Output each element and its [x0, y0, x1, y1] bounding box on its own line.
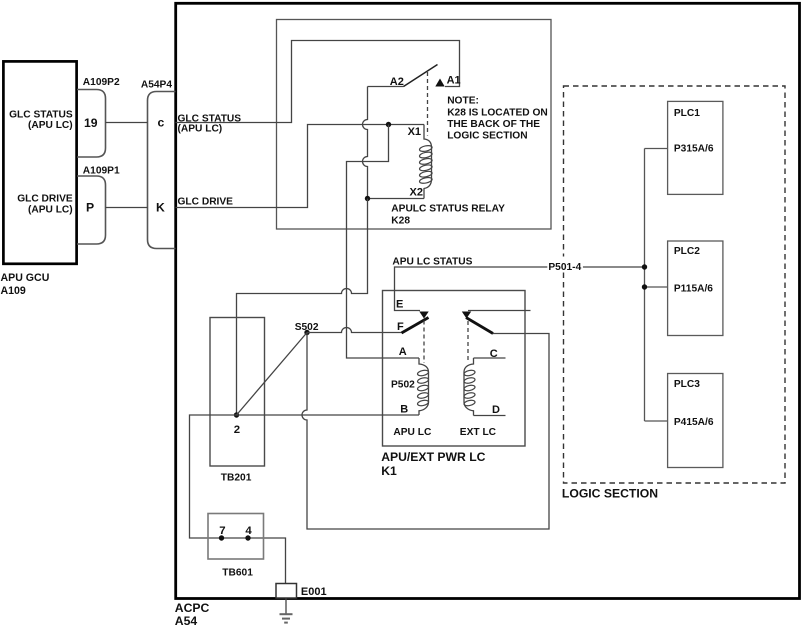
switch S502 node — [295, 322, 319, 335]
K1 APU/EXT PWR LC box — [381, 291, 525, 479]
K1 EXT stub wire — [468, 310, 531, 312]
svg-text:ACPC: ACPC — [175, 601, 210, 615]
svg-text:P415A/6: P415A/6 — [674, 417, 714, 428]
svg-text:APU LC: APU LC — [393, 427, 432, 438]
K1 EXT dashed link — [467, 321, 469, 363]
svg-text:GLC DRIVE: GLC DRIVE — [17, 194, 73, 205]
wire A2 down to X2 node (with hops) — [363, 87, 368, 199]
svg-text:LOGIC SECTION: LOGIC SECTION — [447, 131, 527, 142]
svg-text:GLC STATUS: GLC STATUS — [9, 109, 73, 120]
svg-text:2: 2 — [234, 424, 240, 436]
svg-text:APU LC STATUS: APU LC STATUS — [392, 256, 472, 267]
wire stub to PLC3 — [645, 420, 668, 422]
svg-text:X2: X2 — [410, 187, 423, 199]
relay K28 coil — [391, 125, 505, 227]
K1 EXT LC coil — [460, 348, 500, 438]
K1 EXT LC blade — [466, 318, 493, 334]
svg-text:A109P2: A109P2 — [83, 77, 120, 88]
svg-text:TB201: TB201 — [221, 472, 252, 483]
svg-text:(APU LC): (APU LC) — [178, 123, 223, 134]
svg-text:PLC2: PLC2 — [674, 246, 700, 257]
wire stub to PLC1 — [645, 148, 668, 150]
K1 APU LC dashed link — [423, 321, 425, 364]
K1 APU LC blade F — [397, 318, 429, 334]
ground stud E001 — [276, 584, 327, 599]
node X2 junction — [365, 196, 370, 201]
svg-text:PLC1: PLC1 — [674, 108, 700, 119]
svg-text:7: 7 — [219, 525, 225, 537]
TB601 box — [208, 514, 264, 579]
svg-text:19: 19 — [84, 116, 98, 130]
svg-text:A109P1: A109P1 — [83, 165, 120, 176]
svg-text:A54P4: A54P4 — [141, 80, 172, 91]
svg-text:K: K — [156, 201, 165, 215]
connector A54P4 — [141, 80, 176, 249]
ACPC A54 outer box — [175, 3, 800, 628]
wire TB201 pin2 to TB601 and E001 — [190, 415, 286, 584]
TB201 pin 2 — [234, 412, 240, 436]
node P501-4 junction — [642, 264, 647, 269]
svg-text:NOTE:: NOTE: — [447, 96, 479, 107]
svg-text:GLC DRIVE: GLC DRIVE — [178, 197, 234, 208]
node PLC2 junction — [642, 284, 647, 289]
svg-text:APULC STATUS RELAY: APULC STATUS RELAY — [391, 203, 505, 214]
TB601 pin 7 — [219, 525, 226, 541]
svg-text:B: B — [400, 404, 408, 416]
relay K28 switch blade — [404, 65, 438, 87]
relay K28 contact A1 — [435, 74, 460, 86]
wire stub to PLC2 — [645, 286, 668, 288]
PLC3 box — [668, 374, 723, 468]
svg-text:EXT LC: EXT LC — [460, 427, 497, 438]
svg-text:A1: A1 — [447, 74, 461, 86]
TB601 pin 4 — [245, 525, 252, 541]
K1 contact EXT triangle — [462, 312, 471, 319]
svg-text:THE BACK OF THE: THE BACK OF THE — [447, 119, 540, 130]
wire branch from X1 node down to A pin of K1 — [347, 125, 420, 359]
wire B from TB201 pin2 to coil — [237, 414, 420, 416]
TB201 box — [210, 318, 265, 484]
K1 APU LC coil P502 — [391, 346, 432, 438]
PLC1 box — [668, 101, 723, 194]
wire C stub — [474, 357, 506, 359]
K1 contact E triangle — [396, 299, 429, 319]
svg-text:K28: K28 — [391, 215, 410, 226]
svg-text:A2: A2 — [390, 76, 404, 88]
svg-text:P315A/6: P315A/6 — [674, 144, 714, 155]
LOGIC SECTION dashed box — [562, 86, 785, 501]
APU GCU A109 box — [1, 61, 77, 297]
wire pin19 to pin c — [106, 122, 148, 124]
svg-text:(APU LC): (APU LC) — [28, 120, 73, 131]
svg-text:APU GCU: APU GCU — [1, 272, 50, 284]
svg-text:A: A — [399, 346, 407, 358]
svg-text:D: D — [492, 404, 500, 416]
svg-text:P115A/6: P115A/6 — [674, 284, 713, 295]
APU LC STATUS wire to P501-4 — [392, 256, 644, 310]
wire pin P to pin K — [106, 207, 148, 209]
svg-text:S502: S502 — [295, 322, 319, 333]
svg-text:P: P — [86, 201, 94, 215]
wire S502 down and around to EXT LC blade — [302, 333, 549, 530]
PLC2 box — [668, 241, 723, 336]
GLC STATUS wire to A1 contact — [176, 41, 460, 135]
svg-text:(APU LC): (APU LC) — [28, 204, 73, 215]
svg-text:F: F — [397, 321, 404, 333]
NOTE text — [447, 96, 548, 142]
ground symbol — [280, 599, 293, 623]
svg-text:PLC3: PLC3 — [674, 379, 700, 390]
PLC bus vertical wire — [644, 149, 646, 422]
svg-text:X1: X1 — [408, 126, 421, 138]
svg-text:P501-4: P501-4 — [548, 262, 581, 273]
wire F contact to S502 (hop over vertical) — [307, 328, 402, 333]
connector A109P2 — [77, 77, 120, 157]
svg-text:LOGIC SECTION: LOGIC SECTION — [562, 487, 658, 501]
svg-text:c: c — [158, 116, 165, 130]
switch S502 blade to TB201 pin 2 — [237, 333, 308, 416]
svg-text:P502: P502 — [391, 379, 415, 390]
svg-text:E001: E001 — [301, 586, 327, 598]
node junction on X1 wire — [386, 122, 391, 127]
connector A109P1 — [77, 165, 120, 244]
relay K28 contact A2 wire — [368, 76, 404, 88]
svg-text:E: E — [396, 299, 403, 311]
wire D stub — [474, 415, 506, 417]
svg-text:A54: A54 — [175, 614, 198, 628]
svg-text:A109: A109 — [1, 285, 26, 297]
svg-text:TB601: TB601 — [222, 568, 253, 579]
relay K28 mechanical dashed link — [427, 72, 429, 136]
svg-text:K1: K1 — [381, 464, 397, 478]
svg-text:4: 4 — [245, 525, 252, 537]
svg-text:K28 IS LOCATED ON: K28 IS LOCATED ON — [447, 107, 548, 118]
K28 relay inner box — [277, 20, 552, 230]
label P501-4 on wire — [547, 257, 583, 273]
wire X2 node down to TB201 pin 2 (hop over vertical) — [237, 199, 368, 416]
svg-text:APU/EXT PWR LC: APU/EXT PWR LC — [381, 450, 485, 464]
wire X2 to node — [368, 198, 425, 200]
GLC DRIVE wire to X1 — [176, 125, 425, 208]
